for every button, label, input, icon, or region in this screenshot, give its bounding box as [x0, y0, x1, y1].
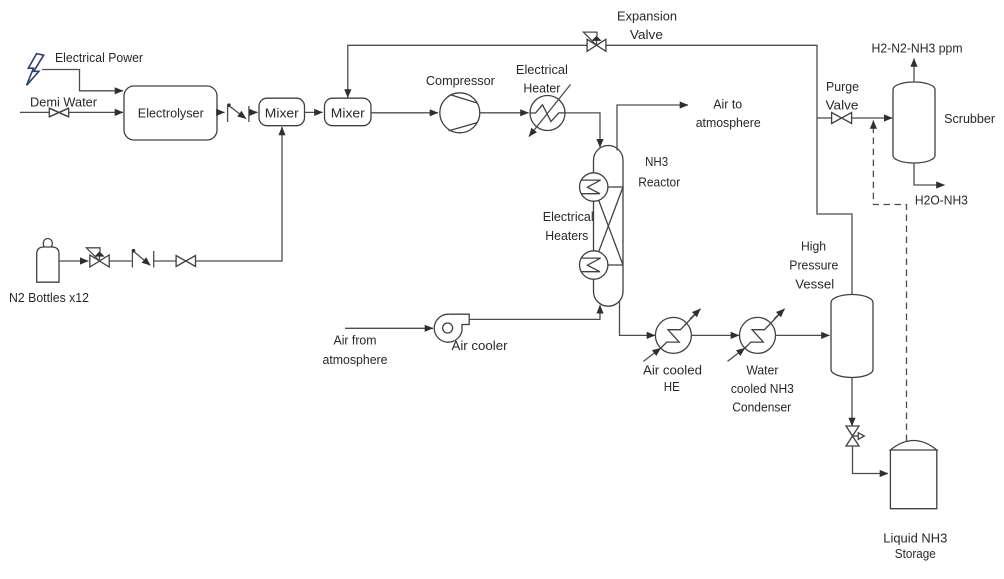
wire scrubber top vent: [913, 59, 915, 83]
water cooled NH3 condenser (circle with S zigzag and flow arrows): [740, 317, 776, 353]
mixer 1 box: [259, 98, 305, 126]
wire reactor to air-to-atmosphere: [617, 105, 688, 151]
purge wire from recycle line to scrubber: [817, 117, 832, 119]
scrubber vessel: [893, 82, 935, 163]
switch symbol (tick, dot, angled arrow, tick): [227, 106, 229, 122]
svg-text:Purge: Purge: [826, 79, 859, 94]
dashed wire liquid NH3 storage to purge line: [873, 121, 906, 442]
wire switch to N2 isolation valve: [154, 260, 176, 262]
svg-text:cooled NH3: cooled NH3: [731, 381, 794, 396]
wire electrical power to electrolyser: [42, 70, 123, 91]
svg-text:High: High: [801, 238, 826, 253]
wire demi water to electrolyser: [20, 111, 49, 113]
svg-text:N2 Bottles x12: N2 Bottles x12: [9, 290, 89, 305]
wire condenser to high pressure vessel: [776, 334, 830, 336]
svg-text:Air cooled: Air cooled: [643, 363, 702, 378]
recycle wire from HP vessel top through expansion valve to mixer 2: [606, 45, 852, 294]
wire scrubber bottom outlet: [914, 163, 945, 185]
wire HP vessel bottom to valve: [851, 378, 853, 427]
svg-text:Compressor: Compressor: [426, 73, 496, 88]
svg-text:Water: Water: [746, 363, 779, 378]
wire air from atmosphere to air cooler: [345, 327, 433, 329]
electrical heater circle bottom (on reactor): [580, 251, 608, 279]
svg-text:Heaters: Heaters: [545, 228, 588, 243]
reactor internal ties and X braces: [605, 187, 623, 265]
compressor circle: [440, 93, 480, 133]
svg-text:Mixer: Mixer: [331, 105, 366, 120]
svg-text:Reactor: Reactor: [638, 174, 681, 189]
electrical heater (circle with zigzag and diagonal arrow): [530, 96, 565, 131]
svg-text:Heater: Heater: [523, 81, 561, 96]
air cooler blower (volute with outlet duct): [448, 314, 469, 331]
wire reactor bottom to air cooled HE: [620, 301, 656, 335]
svg-text:Condenser: Condenser: [732, 400, 792, 415]
electrolyser box: [124, 86, 217, 140]
N2 bottle: [43, 239, 52, 249]
high pressure vessel: [831, 295, 873, 378]
svg-text:Vessel: Vessel: [795, 277, 834, 292]
expansion valve (bowtie with arrow and flag): [587, 39, 606, 51]
wire N2 valve to mixer 1 bottom: [196, 127, 283, 261]
N2 pressure reducing valve (bowtie with arrow and flag): [90, 255, 109, 267]
svg-text:Valve: Valve: [630, 27, 663, 42]
svg-text:H2-N2-NH3 ppm: H2-N2-NH3 ppm: [872, 40, 963, 55]
svg-text:Electrical: Electrical: [543, 209, 594, 224]
liquid NH3 storage tank (dome top): [890, 441, 936, 509]
air cooled HE (circle with S zigzag and flow arrows): [655, 317, 691, 353]
lightning bolt (electrical power symbol): [27, 54, 44, 86]
valve below HP vessel (vertical bowtie with flag): [846, 426, 859, 446]
svg-text:atmosphere: atmosphere: [696, 115, 761, 130]
wire compressor to electrical heater: [480, 112, 529, 114]
svg-text:Electrical: Electrical: [516, 62, 568, 77]
purge valve (bowtie): [832, 113, 852, 124]
svg-text:atmosphere: atmosphere: [323, 352, 388, 367]
svg-text:Scrubber: Scrubber: [944, 111, 996, 126]
wire air cooler to reactor bottom: [469, 305, 600, 319]
NH3 reactor vessel (capsule): [594, 146, 624, 307]
wire mixer 2 to compressor: [371, 112, 438, 114]
wire electrolyser to switch: [217, 111, 225, 113]
wire mixer 1 to mixer 2: [305, 111, 323, 113]
svg-text:Air to: Air to: [713, 96, 742, 111]
svg-text:Liquid NH3: Liquid NH3: [883, 531, 947, 546]
svg-text:Air cooler: Air cooler: [452, 338, 509, 353]
electrical heater circle top (on reactor): [580, 173, 608, 201]
wire reducing valve to switch: [109, 260, 131, 262]
mixer 2 box: [325, 98, 372, 126]
svg-text:Storage: Storage: [895, 546, 936, 561]
wire valve to liquid NH3 storage: [853, 446, 889, 474]
wire N2 bottle to reducing valve: [59, 260, 88, 262]
valve demi water (bowtie): [49, 108, 68, 117]
wire heater to reactor top: [565, 113, 600, 147]
switch symbol on N2 line: [131, 251, 133, 268]
svg-text:HE: HE: [664, 379, 680, 394]
svg-text:Electrical Power: Electrical Power: [55, 50, 144, 65]
svg-text:Air from: Air from: [334, 333, 377, 348]
svg-text:Demi Water: Demi Water: [30, 95, 98, 110]
wire HE to condenser: [691, 334, 739, 336]
wire switch to mixer 1: [250, 111, 258, 113]
N2 isolation valve (bowtie): [176, 256, 195, 267]
svg-text:Mixer: Mixer: [265, 105, 300, 120]
svg-text:NH3: NH3: [645, 154, 668, 169]
svg-text:Expansion: Expansion: [617, 9, 677, 24]
svg-text:H2O-NH3: H2O-NH3: [915, 193, 968, 208]
svg-text:Valve: Valve: [826, 98, 859, 113]
svg-text:Electrolyser: Electrolyser: [138, 106, 205, 121]
svg-text:Pressure: Pressure: [789, 257, 838, 272]
